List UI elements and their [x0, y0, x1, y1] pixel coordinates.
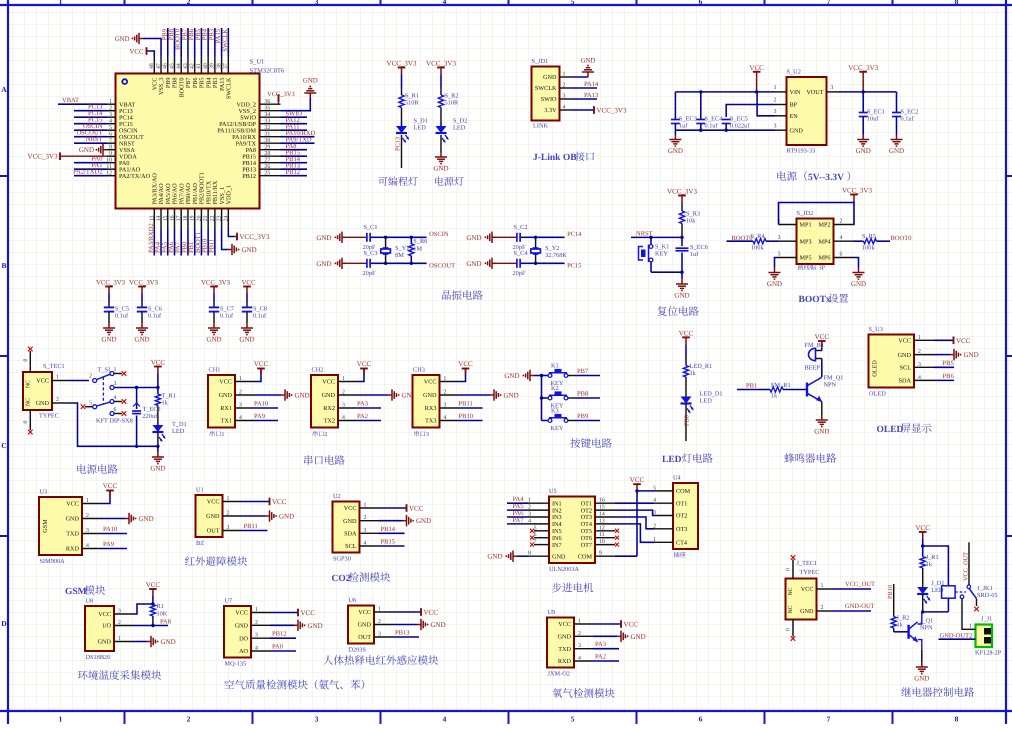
svg-text:3: 3	[778, 235, 781, 241]
svg-text:VCC: VCC	[898, 338, 911, 345]
module U3 SIM900A	[39, 497, 82, 555]
net VCC_3V3 output	[859, 71, 867, 73]
svg-text:BP: BP	[790, 102, 798, 109]
svg-text:VCC: VCC	[624, 621, 639, 629]
svg-text:FM_R1: FM_R1	[771, 382, 791, 389]
module U2 SGP30	[333, 502, 360, 553]
svg-text:3: 3	[109, 112, 112, 118]
svg-text:15: 15	[599, 505, 605, 511]
svg-text:PA0: PA0	[272, 644, 283, 651]
gnd left of S_C1	[342, 236, 346, 238]
resistor S_R5 100k right BOOT0	[854, 240, 864, 242]
svg-text:S_EC2: S_EC2	[901, 109, 919, 116]
svg-text:VCC: VCC	[146, 581, 161, 589]
U5 unconnected inputs 5-7	[534, 530, 549, 532]
svg-text:A: A	[1, 85, 7, 94]
connector CH1	[208, 375, 235, 428]
relay net VCC	[919, 531, 927, 533]
svg-text:4: 4	[444, 415, 447, 421]
svg-text:1M: 1M	[413, 245, 422, 252]
svg-text:GND: GND	[466, 260, 481, 268]
svg-text:8: 8	[528, 551, 531, 557]
svg-text:13: 13	[599, 518, 605, 524]
svg-text:2: 2	[109, 106, 112, 112]
svg-text:PA2: PA2	[595, 654, 606, 661]
gnd below S_C7	[213, 323, 215, 328]
caption buzzer circuit	[784, 453, 794, 463]
svg-text:J-Link OB: J-Link OB	[533, 153, 577, 163]
S_TEC1 pin1 VCC wire	[52, 380, 68, 382]
svg-text:GND: GND	[242, 246, 257, 254]
connector U4 socket	[673, 483, 698, 549]
svg-text:VCC_OUT: VCC_OUT	[962, 552, 969, 581]
svg-text:15: 15	[163, 215, 169, 221]
U4 COM wire	[637, 490, 654, 492]
wire LED_D1 to PB0	[685, 404, 687, 442]
wire BP to S_EC5	[726, 105, 774, 118]
S_U3 pin4 net PB6	[934, 379, 954, 381]
svg-text:VBAT: VBAT	[62, 97, 79, 104]
svg-text:1: 1	[563, 72, 566, 78]
wire buzzer to FM_Q1 collector	[821, 359, 823, 378]
svg-text:GND: GND	[150, 464, 165, 472]
net VCC pullup	[149, 588, 157, 590]
CH1 pin4 net PA9	[254, 420, 278, 422]
svg-text:C: C	[1, 441, 6, 450]
svg-text:0: 0	[786, 628, 792, 631]
key S_K1	[650, 237, 652, 244]
svg-text:GND: GND	[466, 234, 481, 242]
mcu U1 bottom pins	[153, 209, 155, 230]
svg-text:VCC: VCC	[98, 611, 111, 618]
S_TEC1 pin2 GND wire	[52, 402, 68, 404]
svg-text:1: 1	[918, 335, 921, 341]
caption temperature module	[78, 670, 88, 679]
svg-text:VCC: VCC	[358, 609, 371, 616]
svg-text:PB11: PB11	[459, 401, 473, 408]
buzzer FM_B1 BEEP	[808, 348, 815, 360]
svg-text:VCC_3V3: VCC_3V3	[387, 60, 417, 68]
svg-text:0: 0	[786, 568, 792, 571]
svg-text:OT1: OT1	[676, 500, 687, 507]
svg-text:6: 6	[114, 407, 117, 413]
buzzer gnd	[821, 402, 823, 415]
net VCC rail	[154, 366, 162, 368]
svg-text:2: 2	[118, 620, 121, 626]
S_JD2 pin6 gnd	[854, 258, 859, 268]
svg-text:OUT: OUT	[358, 634, 371, 641]
svg-text:1: 1	[528, 498, 531, 504]
svg-text:100k: 100k	[751, 245, 764, 252]
mcu VSS_3 top gnd wire	[143, 39, 161, 57]
svg-text:47: 47	[156, 63, 162, 69]
svg-text:GND: GND	[767, 280, 782, 288]
svg-text:LED: LED	[453, 125, 466, 132]
svg-text:GND-OUT2: GND-OUT2	[940, 633, 973, 640]
mcu U1 left pins	[107, 103, 116, 105]
svg-text:VCC_3V3: VCC_3V3	[426, 60, 456, 68]
svg-text:4: 4	[255, 646, 258, 652]
U5 GND pin 8	[529, 555, 550, 557]
net NRST wire	[631, 236, 682, 238]
svg-text:GSM: GSM	[42, 519, 49, 533]
svg-text:4: 4	[364, 541, 367, 547]
svg-text:16: 16	[169, 215, 175, 221]
svg-text:CT4: CT4	[676, 540, 687, 547]
svg-text:PB7: PB7	[577, 368, 589, 375]
svg-text:6: 6	[699, 715, 703, 724]
svg-text:S_R6: S_R6	[413, 238, 427, 245]
svg-text:0.1uf: 0.1uf	[901, 116, 915, 123]
caption power 5V to 3.3V	[777, 171, 786, 180]
svg-text:SIM900A: SIM900A	[40, 558, 66, 565]
svg-text:OUT: OUT	[207, 528, 220, 535]
svg-text:1: 1	[378, 607, 381, 613]
svg-text:VCC: VCC	[103, 482, 118, 490]
svg-text:PB15: PB15	[381, 539, 395, 546]
svg-text:SWCLK: SWCLK	[226, 77, 233, 99]
svg-text:12: 12	[106, 171, 112, 177]
gnd left of S_C2	[492, 236, 496, 238]
caption air quality module	[224, 680, 234, 689]
svg-text:GND: GND	[504, 392, 519, 400]
svg-text:3: 3	[426, 431, 429, 438]
svg-text:VCC: VCC	[801, 586, 814, 593]
svg-text:VCC_3V3: VCC_3V3	[848, 64, 878, 72]
resistor LED_R1 1k	[685, 360, 687, 366]
svg-text:S_U1: S_U1	[250, 59, 265, 66]
svg-text:2: 2	[528, 505, 531, 511]
svg-text:VCC: VCC	[424, 609, 439, 617]
net GND-OUT2	[939, 638, 976, 640]
svg-text:LED: LED	[172, 428, 185, 435]
svg-text:2: 2	[89, 374, 92, 380]
capacitor S_C7 0.1uf	[209, 306, 219, 308]
led circuit net VCC	[682, 336, 690, 338]
svg-text:PA13: PA13	[584, 92, 598, 99]
svg-text:2: 2	[578, 631, 581, 637]
svg-text:3P: 3P	[819, 265, 826, 272]
mcu VSS_1 bottom gnd	[222, 230, 228, 250]
svg-text:10: 10	[106, 158, 112, 164]
wire OT2 to U4	[615, 510, 654, 515]
svg-text:7: 7	[827, 715, 831, 724]
svg-text:GND: GND	[303, 78, 318, 85]
svg-text:0.1uf: 0.1uf	[115, 313, 129, 320]
svg-text:8M: 8M	[395, 252, 404, 259]
svg-text:3: 3	[315, 0, 319, 6]
svg-text:3: 3	[528, 512, 531, 518]
J_Q1 collector wire	[918, 612, 922, 624]
svg-text:3: 3	[918, 362, 921, 368]
LED S_D2	[440, 122, 442, 126]
label 串口2	[313, 431, 318, 437]
svg-text:I/O: I/O	[103, 623, 112, 630]
svg-text:PB12: PB12	[286, 169, 300, 176]
svg-text:GND: GND	[668, 147, 683, 155]
svg-text:9: 9	[599, 551, 602, 557]
svg-text:K2: K2	[551, 385, 559, 392]
svg-text:TYPEC: TYPEC	[39, 413, 59, 420]
gnd below S_EC3	[674, 130, 676, 134]
U5 input pins PA4-PA7	[529, 502, 550, 504]
svg-text:PB13: PB13	[395, 630, 409, 637]
wire OT4 to U4 CT4	[615, 524, 654, 542]
svg-text:GND: GND	[889, 147, 904, 155]
svg-text:1k: 1k	[162, 400, 169, 407]
svg-text:S_C1: S_C1	[364, 224, 378, 231]
svg-text:U4: U4	[673, 475, 682, 482]
svg-text:MP3: MP3	[800, 238, 812, 245]
module U8 DS18B20	[85, 606, 114, 651]
svg-text:SGP30: SGP30	[333, 556, 351, 563]
svg-text:RX1: RX1	[220, 405, 232, 412]
module U6 D203S	[348, 606, 374, 644]
svg-text:S_C6: S_C6	[148, 306, 162, 313]
svg-text:T_S1: T_S1	[98, 367, 112, 374]
svg-text:GND: GND	[581, 58, 596, 65]
mcu U1 top pins	[153, 56, 155, 74]
svg-text:4: 4	[86, 543, 89, 549]
svg-text:1: 1	[118, 636, 121, 642]
wire OT3 to U4	[615, 517, 654, 529]
key K2	[542, 397, 549, 399]
mcu U1 STM32C8T6 body	[116, 74, 260, 209]
svg-text:GND: GND	[504, 372, 519, 380]
mcu VDD_1 bottom vcc_3v3	[228, 230, 234, 237]
capacitor T_EC2 220uf electrolytic	[136, 388, 138, 410]
svg-text:TYPEC: TYPEC	[800, 569, 820, 576]
svg-text:4: 4	[443, 0, 447, 6]
svg-text:J_J1: J_J1	[981, 616, 992, 623]
svg-text:VCC: VCC	[344, 505, 357, 512]
svg-text:GND: GND	[431, 621, 446, 629]
mcu U1 right pins	[260, 103, 281, 105]
svg-text:OT2: OT2	[676, 513, 687, 520]
capacitor S_C3 20pF	[366, 259, 368, 268]
wire OT1 to U4	[615, 502, 654, 504]
svg-text:S_TEC1: S_TEC1	[43, 363, 65, 370]
svg-text:3: 3	[831, 85, 834, 91]
svg-text:VCC: VCC	[242, 280, 256, 287]
capacitor S_EC3 1uf	[674, 92, 676, 120]
svg-text:11: 11	[599, 532, 605, 538]
LED S_D1	[401, 122, 403, 126]
svg-text:PA9: PA9	[103, 541, 114, 548]
svg-text:PA8: PA8	[160, 619, 171, 626]
capacitor S_EC2 0.1uf	[896, 92, 898, 112]
svg-text:VCC: VCC	[749, 64, 764, 72]
svg-text:KEY: KEY	[655, 251, 668, 258]
svg-text:36: 36	[265, 99, 271, 105]
svg-text:27: 27	[265, 158, 271, 164]
svg-text:4: 4	[443, 715, 447, 724]
svg-text:PB12: PB12	[242, 173, 256, 180]
svg-text:GND: GND	[487, 553, 502, 561]
svg-text:GND: GND	[134, 335, 149, 343]
svg-text:17: 17	[176, 215, 182, 221]
svg-text:3: 3	[774, 109, 777, 115]
transistor FM_Q1 NPN	[806, 383, 808, 397]
net PB10 relay input	[893, 584, 895, 617]
svg-text:1: 1	[969, 624, 972, 630]
svg-text:34: 34	[265, 112, 271, 118]
mcu VSSA gnd	[103, 149, 107, 151]
svg-text:VCC: VCC	[956, 337, 971, 345]
svg-text:1: 1	[59, 0, 63, 6]
S_JD1 pin4 vcc_3v3	[572, 109, 595, 111]
svg-text:2: 2	[378, 619, 381, 625]
svg-text:S_C7: S_C7	[220, 306, 234, 313]
svg-text:S_EC5: S_EC5	[730, 116, 748, 123]
svg-text:S_R4: S_R4	[751, 233, 766, 240]
svg-text:20pF: 20pF	[513, 270, 526, 277]
svg-text:OSCIN: OSCIN	[429, 231, 449, 238]
svg-text:SWCLK: SWCLK	[535, 85, 557, 92]
svg-text:2: 2	[821, 605, 824, 611]
svg-text:VOUT: VOUT	[806, 89, 823, 96]
svg-text:CH3: CH3	[413, 367, 425, 374]
svg-text:5: 5	[571, 715, 575, 724]
svg-text:20pF: 20pF	[363, 270, 376, 277]
svg-text:11: 11	[106, 164, 112, 170]
capacitor S_C1 20pF	[366, 233, 368, 242]
svg-text:PA2/TX/AO: PA2/TX/AO	[119, 173, 151, 180]
svg-text:KEY: KEY	[551, 425, 564, 432]
svg-text:6: 6	[109, 132, 112, 138]
switch T_S1 contacts 4 5	[110, 400, 114, 404]
svg-text:RXD: RXD	[558, 658, 572, 665]
svg-text:PA9: PA9	[254, 413, 265, 420]
net PB7	[575, 375, 600, 377]
svg-text:PB5: PB5	[943, 360, 954, 367]
J_TEC1 pin1 VCC_OUT	[817, 588, 833, 590]
svg-text:GND: GND	[343, 518, 357, 525]
resistor S_R6 1M	[409, 244, 414, 256]
power circuit gnd	[157, 446, 159, 452]
svg-text:IN7: IN7	[552, 542, 562, 549]
svg-text:OLED: OLED	[877, 425, 904, 435]
switch T_S1 gang dashes	[102, 377, 104, 404]
svg-text:PA10: PA10	[254, 401, 268, 408]
svg-text:VCC: VCC	[272, 498, 287, 506]
svg-text:32.768K: 32.768K	[545, 252, 567, 259]
svg-text:RX3: RX3	[425, 405, 437, 412]
svg-text:BZ: BZ	[196, 540, 204, 547]
svg-text:2: 2	[227, 511, 230, 517]
svg-text:R1: R1	[157, 603, 164, 610]
wire S_D1 to PC13	[401, 135, 403, 168]
svg-text:33: 33	[265, 119, 271, 125]
capacitor S_C5 0.1uf	[104, 306, 114, 308]
svg-text:3: 3	[774, 123, 777, 129]
gnd below S_EC1	[862, 135, 864, 140]
svg-text:PB10: PB10	[887, 585, 894, 599]
S_JD2 pin5 gnd	[775, 258, 779, 268]
relay switch contacts	[955, 591, 966, 593]
svg-text:PB8: PB8	[577, 391, 588, 398]
svg-text:VCC: VCC	[458, 360, 473, 368]
svg-text:RT9193-33: RT9193-33	[787, 148, 816, 155]
svg-text:1: 1	[364, 503, 367, 509]
gnd below S_C8	[246, 323, 248, 328]
mcu VCC top wire	[147, 51, 155, 56]
svg-text:U3: U3	[40, 489, 48, 496]
svg-text:8: 8	[955, 715, 959, 724]
svg-text:4: 4	[528, 518, 531, 524]
S_JD1 pin1 gnd	[572, 76, 589, 78]
svg-text:D203S: D203S	[349, 647, 367, 654]
svg-text:GND: GND	[206, 335, 221, 343]
svg-text:COM: COM	[676, 488, 691, 495]
svg-text:VCC: VCC	[357, 360, 372, 368]
svg-text:PB0: PB0	[684, 415, 691, 426]
svg-text:B: B	[1, 261, 6, 270]
svg-text:DO: DO	[239, 635, 248, 642]
svg-text:J_R2: J_R2	[897, 615, 910, 622]
svg-text:PA10: PA10	[103, 526, 117, 533]
svg-text:VCC: VCC	[235, 610, 248, 617]
caption relay control circuit	[901, 687, 911, 696]
CH3 pin4 net PB10	[459, 420, 483, 422]
svg-text:4: 4	[342, 415, 345, 421]
svg-text:FM_Q1: FM_Q1	[824, 375, 844, 382]
svg-text:VCC_3V3: VCC_3V3	[267, 91, 295, 98]
capacitor S_C6 0.1uf	[137, 306, 147, 308]
svg-text:PA2: PA2	[357, 413, 368, 420]
svg-text:GND: GND	[898, 352, 912, 359]
svg-text:1: 1	[86, 498, 89, 504]
U5 COM pin9 wire to VCC	[615, 555, 637, 557]
svg-text:VCC: VCC	[915, 524, 930, 532]
sheet border frame	[7, 0, 9, 724]
svg-text:1: 1	[227, 496, 230, 502]
module S_U3 OLED	[869, 335, 915, 388]
svg-text:PB6: PB6	[943, 373, 955, 380]
svg-text:K1: K1	[551, 363, 559, 370]
svg-text:48: 48	[149, 63, 155, 69]
svg-text:GND: GND	[98, 639, 112, 646]
svg-text:30: 30	[265, 138, 271, 144]
switch T_S1 pole 3	[110, 386, 114, 390]
svg-text:T_EC2: T_EC2	[143, 406, 161, 413]
svg-text:1: 1	[444, 376, 447, 382]
svg-text:0.1uf: 0.1uf	[705, 123, 719, 130]
svg-text:VCC: VCC	[322, 379, 335, 386]
svg-text:GND: GND	[856, 147, 871, 155]
svg-text:S_C4: S_C4	[514, 250, 529, 257]
svg-text:GND: GND	[914, 674, 929, 682]
S_JD1 pin2 wire PA14	[572, 87, 598, 89]
svg-text:S_C3: S_C3	[364, 250, 378, 257]
svg-text:GND: GND	[416, 517, 431, 525]
svg-text:2: 2	[342, 390, 345, 396]
S_U2 input pins	[775, 91, 787, 93]
svg-text:VCC: VCC	[679, 329, 694, 337]
module U9 JXM-O2	[547, 618, 574, 668]
module U1 BZ	[196, 495, 223, 537]
svg-text:U8: U8	[86, 598, 94, 605]
resistor J_R2 1k	[891, 617, 896, 629]
gnd left of S_C3	[342, 262, 346, 264]
svg-text:25: 25	[265, 171, 271, 177]
power LED branch: net VCC_3V3	[437, 67, 445, 69]
gnd left of S_C4	[492, 262, 496, 264]
svg-text:VCC: VCC	[151, 359, 166, 367]
S_U3 pin1 vcc	[934, 339, 954, 341]
svg-text:S_D2: S_D2	[453, 118, 467, 125]
S_JD2 left/right pins	[779, 224, 797, 226]
